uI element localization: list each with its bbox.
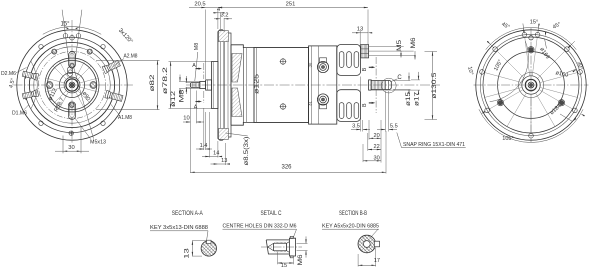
svg-text:ø17: ø17 bbox=[413, 91, 420, 106]
B-B key bbox=[374, 241, 379, 247]
rear housing block o130.5 bbox=[309, 46, 337, 124]
svg-text:C: C bbox=[397, 75, 402, 81]
right view centerlines bbox=[474, 84, 589, 86]
svg-text:3.5: 3.5 bbox=[352, 124, 360, 130]
svg-text:ø12: ø12 bbox=[170, 90, 177, 107]
dim 30 bottom of left view bbox=[62, 136, 64, 154]
stud A2.M8 bbox=[102, 60, 121, 74]
svg-text:D1.M6: D1.M6 bbox=[12, 111, 27, 117]
bearing housing rib top (hatched) bbox=[232, 54, 242, 83]
screw in top slot bbox=[70, 63, 75, 68]
svg-text:SECTION B-B: SECTION B-B bbox=[339, 211, 367, 217]
bottom earth symbol hole bbox=[69, 131, 73, 135]
svg-text:ø130.5: ø130.5 bbox=[431, 72, 438, 99]
svg-text:KEY 3x5x13-DIN 6888: KEY 3x5x13-DIN 6888 bbox=[150, 225, 208, 231]
A-A key slot bbox=[207, 240, 211, 243]
svg-text:ø15: ø15 bbox=[405, 91, 412, 106]
right view inner boss circle bbox=[498, 52, 565, 119]
section B-B markers bbox=[375, 57, 377, 81]
detail C centre hole cone bbox=[268, 243, 274, 250]
terminal bolt top bbox=[320, 58, 327, 63]
right view bolt holes bbox=[578, 70, 583, 75]
upper small screws left view bbox=[87, 49, 92, 54]
left view ring bolt holes bbox=[101, 45, 105, 49]
svg-text:ø82: ø82 bbox=[149, 74, 156, 92]
detail C dim M6 bbox=[297, 242, 308, 244]
dim 13 top right bbox=[359, 31, 361, 45]
svg-text:15°: 15° bbox=[60, 22, 70, 28]
flange back plate bbox=[224, 33, 231, 137]
top hole trio (15 deg pattern) bbox=[76, 34, 81, 39]
stud A1.M8 bbox=[105, 90, 123, 102]
brush cover bottom ovals bbox=[339, 103, 344, 119]
svg-text:30: 30 bbox=[373, 156, 379, 162]
svg-text:M8: M8 bbox=[179, 89, 186, 103]
svg-text:ø8.5(3x): ø8.5(3x) bbox=[243, 136, 250, 165]
right view hub outer circle bbox=[518, 72, 543, 97]
oval slot bottom (M5x13) bbox=[68, 102, 75, 120]
B-B dim 17 bbox=[357, 254, 359, 267]
svg-text:M8: M8 bbox=[194, 43, 200, 51]
snap ring groove bbox=[384, 81, 386, 90]
svg-text:13: 13 bbox=[357, 27, 363, 33]
right view screws 3x120 (dark) bbox=[528, 47, 534, 53]
right dims M5 M6 bbox=[369, 46, 404, 48]
svg-text:5.5: 5.5 bbox=[390, 124, 398, 130]
circle o90 bbox=[45, 58, 99, 112]
svg-text:A1.M8: A1.M8 bbox=[118, 115, 132, 121]
svg-text:13: 13 bbox=[221, 158, 227, 164]
flange spigot o78.2 bbox=[212, 62, 218, 109]
svg-text:KEY A5x5x20-DIN 6885: KEY A5x5x20-DIN 6885 bbox=[322, 223, 379, 229]
bolt circle o112 (dash-dot) bbox=[38, 51, 105, 118]
detail C circle bbox=[381, 78, 396, 93]
svg-text:A: A bbox=[194, 104, 198, 110]
right view left 105 dim bbox=[490, 41, 529, 102]
bearing housing behind flange bbox=[231, 45, 254, 125]
flange top hole section (hatched) bbox=[219, 31, 229, 42]
svg-text:SETAIL C: SETAIL C bbox=[261, 211, 283, 217]
dims 20 / 22 / 30 bbox=[368, 120, 370, 140]
dim o15 bbox=[393, 80, 411, 82]
detail C centerline bbox=[261, 246, 302, 248]
circle o82 spigot bbox=[47, 60, 96, 109]
left view housing circles bbox=[29, 42, 114, 127]
bearing housing rib bottom (hatched) bbox=[232, 88, 242, 117]
svg-text:105°: 105° bbox=[502, 136, 514, 142]
svg-text:15°: 15° bbox=[530, 20, 538, 26]
detail C threaded bore bbox=[273, 243, 286, 250]
svg-text:M6: M6 bbox=[297, 254, 304, 266]
svg-text:A: A bbox=[192, 63, 196, 69]
oval slot top (M5x13) bbox=[69, 52, 76, 68]
svg-text:M5x13: M5x13 bbox=[90, 139, 106, 145]
A-A dim 13 bbox=[192, 240, 206, 242]
dim o17 bbox=[372, 89, 420, 91]
right end view outer circle o184 bbox=[476, 30, 586, 140]
svg-text:15: 15 bbox=[281, 263, 287, 269]
front shaft o12 section bbox=[200, 81, 206, 88]
svg-text:D2.M6: D2.M6 bbox=[1, 71, 16, 77]
right view bottom 105 dim bbox=[479, 109, 583, 142]
radial spokes left view bbox=[80, 78, 98, 83]
terminal bolt bottom bbox=[320, 104, 327, 109]
dim o82 vertical right of left view bbox=[96, 59, 160, 61]
angular dim 4.5 deg left bbox=[31, 61, 37, 109]
svg-text:251: 251 bbox=[286, 2, 296, 8]
svg-text:M5: M5 bbox=[396, 39, 403, 51]
dims 1.4 / 14 / 13 stack bbox=[203, 108, 205, 150]
section A-A shaft circle (hatched) bbox=[201, 241, 216, 256]
flange bottom hole section (hatched) bbox=[219, 128, 229, 139]
top dims 20.5 / 251 bbox=[205, 10, 207, 80]
svg-text:30: 30 bbox=[68, 145, 74, 151]
body earth symbol bottom bbox=[280, 104, 285, 109]
svg-text:3.2: 3.2 bbox=[220, 13, 228, 19]
B-B inner bore bbox=[363, 241, 370, 248]
detail C counterbore chamfer bbox=[287, 242, 290, 253]
detail C snap ring flange bbox=[289, 238, 295, 256]
brush cover top bbox=[337, 45, 361, 76]
svg-text:10: 10 bbox=[183, 115, 189, 121]
stud D1.M6 bbox=[22, 90, 39, 100]
brush screws (hatched) left view bbox=[90, 82, 97, 89]
brush cover bottom bbox=[337, 90, 361, 122]
left dims o78.2 o12 M8 bbox=[169, 61, 213, 63]
left view centerlines bbox=[14, 84, 134, 86]
right view hub bbox=[522, 76, 540, 94]
svg-text:B: B bbox=[362, 103, 368, 107]
right view circle o160 bbox=[483, 37, 579, 133]
dim 4 bbox=[219, 12, 221, 29]
center view main centerline bbox=[186, 84, 440, 86]
dim o130.5 bbox=[425, 51, 438, 53]
detail C shaft end outline bbox=[266, 240, 289, 254]
svg-text:ø125: ø125 bbox=[254, 73, 261, 94]
motor body cylinder o125 bbox=[254, 48, 309, 123]
dim 326 bbox=[385, 131, 387, 174]
svg-text:1.4: 1.4 bbox=[200, 143, 208, 149]
front shaft M8 tip bbox=[190, 83, 199, 88]
svg-text:31: 31 bbox=[308, 101, 313, 106]
brush cover top ovals bbox=[339, 52, 344, 68]
svg-text:30: 30 bbox=[308, 62, 313, 67]
svg-text:A2.M8: A2.M8 bbox=[124, 54, 138, 60]
body earth symbol top bbox=[280, 59, 285, 64]
small slot above hub bbox=[68, 67, 73, 77]
dim 3.2 bbox=[223, 18, 225, 32]
svg-text:326: 326 bbox=[281, 164, 292, 170]
shaft hub bbox=[64, 77, 80, 93]
svg-text:M6: M6 bbox=[410, 37, 417, 49]
svg-text:17: 17 bbox=[374, 258, 380, 264]
svg-text:ø78.2: ø78.2 bbox=[162, 66, 169, 94]
left end view: flange outer ring bbox=[17, 30, 127, 140]
screw in bottom slot bbox=[69, 103, 74, 108]
section B-B shaft circle (hatched) bbox=[358, 235, 376, 253]
svg-text:13: 13 bbox=[184, 247, 191, 258]
right view radial spokes bbox=[540, 73, 577, 83]
svg-text:20.5: 20.5 bbox=[194, 2, 205, 8]
svg-text:CENTRE HOLES DIN 332-D M6: CENTRE HOLES DIN 332-D M6 bbox=[223, 223, 297, 229]
svg-text:14: 14 bbox=[213, 150, 219, 156]
svg-text:SECTION A-A: SECTION A-A bbox=[172, 211, 203, 217]
detail C dim 15 bbox=[277, 252, 279, 264]
svg-text:SNAP RING 15X1-DIN 471: SNAP RING 15X1-DIN 471 bbox=[403, 142, 465, 148]
mounting flange plate o184 bbox=[218, 30, 224, 140]
dims 3.5 / 5.5 bbox=[360, 77, 362, 132]
svg-text:22: 22 bbox=[373, 144, 379, 150]
stud D2.M6 bbox=[22, 70, 39, 80]
terminal studs M5/M6 bbox=[361, 45, 369, 58]
dim 10 bottom left bbox=[189, 88, 191, 173]
rear shaft bbox=[369, 80, 372, 90]
svg-text:20: 20 bbox=[373, 133, 379, 139]
bearing boss circle bbox=[59, 72, 84, 97]
section A-A markers bbox=[203, 63, 205, 79]
right view top angular dims 45/15/45 bbox=[568, 41, 575, 48]
shaft collar o17 bbox=[206, 80, 212, 90]
svg-text:B: B bbox=[362, 67, 368, 71]
right view bolt circle o169 bbox=[480, 34, 581, 135]
angular dim 15 deg top left view bbox=[62, 10, 68, 59]
